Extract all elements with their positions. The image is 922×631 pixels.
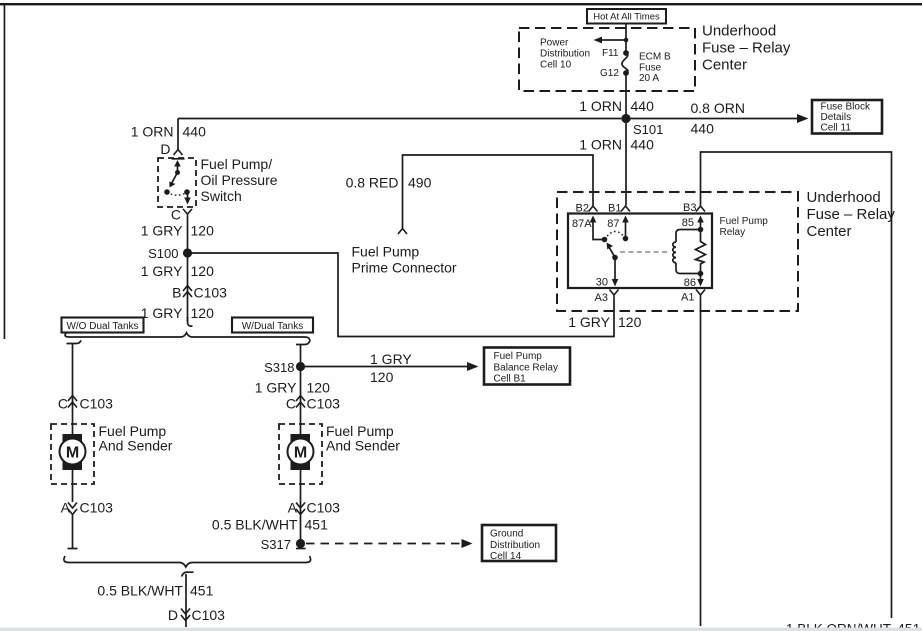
svg-text:0.5 BLK/WHT: 0.5 BLK/WHT — [212, 517, 298, 533]
svg-text:ECM B: ECM B — [639, 52, 671, 63]
svg-text:Relay: Relay — [720, 227, 746, 238]
svg-text:1 GRY: 1 GRY — [568, 314, 610, 330]
svg-text:1 GRY: 1 GRY — [141, 263, 183, 279]
svg-text:1 ORN: 1 ORN — [131, 124, 174, 140]
svg-text:440: 440 — [183, 124, 207, 140]
svg-text:A: A — [288, 500, 298, 516]
svg-text:Balance Relay: Balance Relay — [494, 363, 558, 374]
svg-text:85: 85 — [682, 217, 694, 229]
svg-text:Cell 11: Cell 11 — [821, 123, 852, 134]
svg-text:87A: 87A — [572, 218, 592, 230]
svg-text:Underhood: Underhood — [807, 189, 881, 206]
svg-text:B2: B2 — [576, 203, 589, 215]
svg-text:S100: S100 — [148, 246, 178, 261]
svg-text:Distribution: Distribution — [490, 540, 540, 551]
svg-text:Hot At All Times: Hot At All Times — [593, 12, 660, 23]
svg-text:120: 120 — [191, 305, 215, 321]
svg-text:0.5 BLK/WHT: 0.5 BLK/WHT — [97, 583, 183, 599]
svg-text:B: B — [172, 285, 181, 301]
svg-text:C103: C103 — [80, 500, 114, 516]
svg-text:A3: A3 — [595, 292, 608, 304]
svg-text:W/O Dual Tanks: W/O Dual Tanks — [66, 321, 138, 332]
svg-text:A: A — [61, 500, 71, 516]
svg-text:0.8 ORN: 0.8 ORN — [691, 100, 745, 116]
svg-text:Cell 14: Cell 14 — [490, 551, 522, 562]
svg-text:Details: Details — [821, 112, 852, 123]
svg-text:W/Dual Tanks: W/Dual Tanks — [242, 321, 304, 332]
svg-text:86: 86 — [684, 277, 696, 289]
svg-text:B1: B1 — [608, 203, 621, 215]
svg-text:C103: C103 — [307, 500, 341, 516]
svg-text:Center: Center — [807, 223, 852, 240]
svg-text:C: C — [58, 396, 68, 412]
svg-text:451: 451 — [190, 583, 214, 599]
svg-text:C: C — [171, 207, 181, 223]
svg-text:B3: B3 — [683, 202, 696, 214]
svg-text:Prime Connector: Prime Connector — [352, 260, 457, 276]
svg-text:120: 120 — [370, 369, 394, 385]
svg-text:Center: Center — [702, 57, 747, 74]
svg-text:And Sender: And Sender — [99, 438, 173, 454]
svg-text:F11: F11 — [602, 48, 619, 59]
svg-text:M: M — [294, 445, 307, 462]
svg-text:And Sender: And Sender — [326, 438, 400, 454]
svg-text:490: 490 — [408, 175, 432, 191]
svg-text:120: 120 — [191, 263, 215, 279]
svg-text:30: 30 — [596, 277, 608, 289]
svg-text:M: M — [66, 445, 79, 462]
svg-text:Fuse – Relay: Fuse – Relay — [807, 206, 896, 223]
svg-text:C103: C103 — [194, 285, 228, 301]
svg-text:C103: C103 — [80, 396, 114, 412]
svg-text:S101: S101 — [633, 122, 663, 137]
svg-text:S318: S318 — [264, 360, 294, 375]
svg-text:Switch: Switch — [201, 188, 242, 204]
svg-text:120: 120 — [618, 314, 642, 330]
svg-text:C103: C103 — [192, 607, 226, 623]
svg-text:G12: G12 — [600, 68, 619, 79]
svg-text:C103: C103 — [307, 396, 341, 412]
svg-text:Fuel Pump: Fuel Pump — [352, 244, 420, 260]
svg-text:Ground: Ground — [490, 529, 523, 540]
svg-text:1 GRY: 1 GRY — [370, 351, 412, 367]
svg-text:440: 440 — [631, 137, 655, 153]
svg-text:440: 440 — [691, 121, 715, 137]
svg-text:D: D — [168, 607, 178, 623]
svg-text:120: 120 — [191, 223, 215, 239]
svg-text:A1: A1 — [681, 292, 694, 304]
svg-text:120: 120 — [307, 380, 331, 396]
svg-text:Underhood: Underhood — [702, 23, 776, 40]
svg-text:Cell 10: Cell 10 — [540, 60, 572, 71]
svg-text:20 A: 20 A — [639, 73, 659, 84]
svg-text:Oil Pressure: Oil Pressure — [201, 172, 278, 188]
svg-text:D: D — [160, 141, 170, 157]
svg-text:1 ORN: 1 ORN — [579, 98, 622, 114]
svg-text:S317: S317 — [261, 537, 291, 552]
svg-text:Fuel Pump: Fuel Pump — [720, 216, 769, 227]
svg-text:1 GRY: 1 GRY — [141, 223, 183, 239]
svg-text:Cell B1: Cell B1 — [494, 374, 527, 385]
svg-text:0.8 RED: 0.8 RED — [346, 175, 399, 191]
svg-text:451: 451 — [305, 517, 329, 533]
svg-text:Fuse: Fuse — [639, 63, 662, 74]
svg-text:Power: Power — [540, 38, 569, 49]
svg-text:1 GRY: 1 GRY — [141, 305, 183, 321]
svg-text:Fuel Pump/: Fuel Pump/ — [201, 156, 273, 172]
svg-text:1 GRY: 1 GRY — [255, 380, 297, 396]
svg-text:440: 440 — [631, 98, 655, 114]
svg-text:1 ORN: 1 ORN — [579, 137, 622, 153]
svg-text:87: 87 — [607, 218, 619, 230]
svg-text:Fuel Pump: Fuel Pump — [494, 351, 543, 362]
svg-text:Fuse Block: Fuse Block — [821, 102, 871, 113]
svg-text:C: C — [286, 396, 296, 412]
svg-text:Fuse – Relay: Fuse – Relay — [702, 40, 791, 57]
svg-text:Distribution: Distribution — [540, 49, 590, 60]
